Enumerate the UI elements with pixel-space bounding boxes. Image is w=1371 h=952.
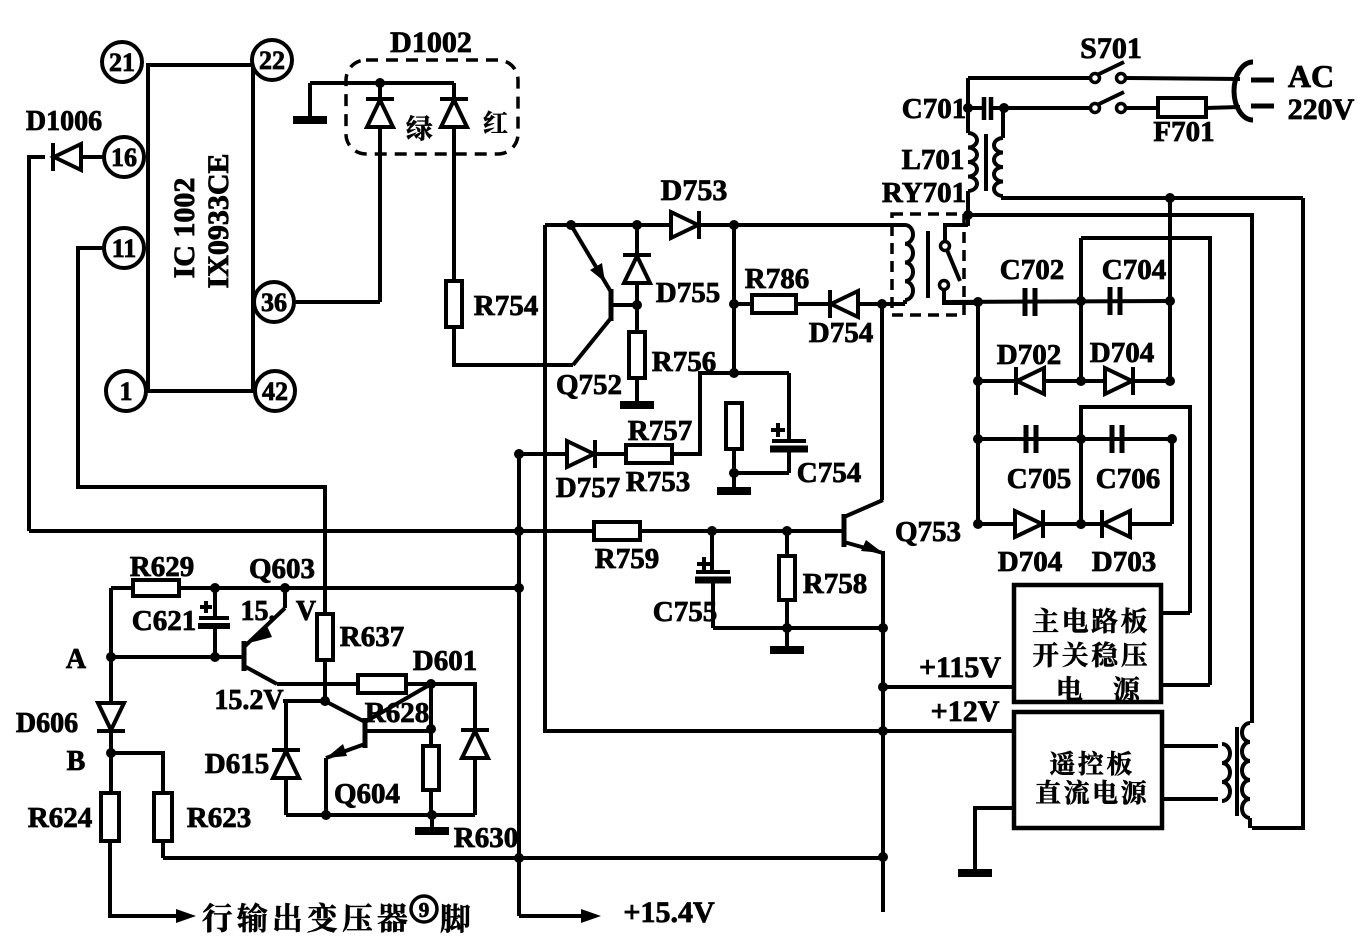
- wire AC second line: [992, 106, 1091, 110]
- junction R630 bottom: [427, 810, 437, 820]
- switch S701 blade b: [1097, 92, 1124, 105]
- junction x883 y856: [878, 852, 888, 862]
- svg-text:Q753: Q753: [895, 516, 961, 548]
- transformer T primary winding: [1242, 723, 1250, 818]
- relay blade: [947, 250, 960, 281]
- wire L701 right bottom: [1003, 196, 1303, 198]
- block remote control DC supply: [1014, 712, 1162, 828]
- svg-text:Q603: Q603: [249, 553, 315, 585]
- wire +15.4V vertical x519: [517, 454, 521, 916]
- wire bottom rail C755-R758-Q753: [713, 626, 883, 630]
- fuse F701: [1158, 98, 1206, 117]
- diode D704 upper: [1105, 367, 1133, 395]
- svg-text:15.2V: 15.2V: [214, 685, 283, 716]
- wire right column x1303: [1252, 198, 1303, 828]
- pin 22: [252, 40, 292, 80]
- svg-text:IC 1002: IC 1002: [168, 178, 201, 279]
- svg-text:220V: 220V: [1288, 93, 1355, 126]
- resistor R630 body: [423, 746, 439, 790]
- wire top line to plug: [1126, 78, 1240, 79]
- wire R623 down to long rail: [161, 841, 165, 858]
- svg-text:D757: D757: [556, 472, 620, 504]
- junction x519 y531: [514, 526, 524, 536]
- pin 11: [104, 228, 144, 268]
- IC U1002 box: [148, 65, 253, 391]
- svg-text:IX0933CE: IX0933CE: [202, 153, 235, 288]
- capacitor C702: [1025, 288, 1035, 316]
- wire pin11 left-down-right to R637: [78, 248, 325, 614]
- junction row C left: [973, 434, 983, 444]
- wire left column x978: [976, 302, 980, 524]
- capacitor C621: [198, 588, 230, 657]
- diode D757: [567, 440, 595, 468]
- junction Q604 emitter bottom: [321, 810, 331, 820]
- ground at D1002: [293, 116, 327, 124]
- junction y198: [1165, 193, 1175, 203]
- wire D754 to relay coil: [858, 302, 905, 306]
- junction R758 bottom: [782, 623, 792, 633]
- svg-text:R623: R623: [187, 802, 251, 834]
- wire R628 to D601 corner: [407, 684, 475, 729]
- switch S701 contact b1: [1091, 104, 1100, 113]
- svg-text:D703: D703: [1092, 546, 1156, 578]
- wire box2 ground stub: [975, 808, 1014, 871]
- wire R786 branch vertical x734: [732, 225, 736, 373]
- wire to fuse: [1126, 106, 1158, 110]
- resistor R786 body: [752, 295, 796, 313]
- svg-text:C755: C755: [653, 596, 717, 628]
- wire R758 bottom stub: [785, 600, 789, 628]
- svg-text:R624: R624: [28, 802, 92, 834]
- capacitor C701: [968, 97, 991, 120]
- svg-text:V: V: [296, 596, 316, 627]
- LED red vertical wire: [452, 83, 456, 283]
- label flyback transformer pin 9: [203, 896, 470, 933]
- resistor R629 body: [133, 580, 179, 596]
- wire R756 to ground: [635, 378, 639, 404]
- junction D755 cathode: [632, 220, 642, 230]
- wire to D757: [519, 452, 567, 456]
- capacitor C706: [1112, 425, 1122, 453]
- svg-text:C706: C706: [1096, 463, 1160, 495]
- svg-text:+15.4V: +15.4V: [623, 896, 715, 929]
- diode D702: [1016, 367, 1044, 395]
- wire top bus into relay coil: [892, 223, 905, 227]
- switch S701 contact b2: [1117, 104, 1126, 113]
- svg-text:C702: C702: [1000, 254, 1064, 286]
- svg-text:D755: D755: [656, 277, 720, 309]
- wire pin36 to green LED: [294, 300, 380, 304]
- junction R630 top node: [426, 724, 436, 734]
- junction 15.2V node: [320, 696, 330, 706]
- wire L701 left bottom to relay node: [966, 191, 970, 226]
- transistor Q753: [844, 500, 883, 553]
- svg-text:D606: D606: [16, 708, 78, 739]
- wire Q753 emitter down x883: [881, 551, 885, 912]
- junction node B: [106, 748, 116, 758]
- wire box1 upper stub: [1161, 611, 1190, 615]
- transistor Q604: [325, 684, 431, 815]
- wire D615 anode: [284, 776, 288, 815]
- junction x883 y731: [878, 726, 888, 736]
- junction unnamed resistor top: [729, 368, 739, 378]
- resistor R756 body: [629, 332, 645, 378]
- svg-text:42: 42: [262, 377, 288, 406]
- svg-text:Q604: Q604: [334, 778, 400, 810]
- svg-text:+115V: +115V: [919, 651, 1001, 684]
- wire R758 top stub: [785, 531, 789, 557]
- wire R754 bottom to Q752 collector: [454, 327, 573, 365]
- label green: [407, 115, 433, 140]
- wire R624 down to flyback arrow: [110, 841, 176, 916]
- wire R629 row: [111, 586, 519, 590]
- wire L701 right top: [1001, 108, 1005, 138]
- wire D754 node down to Q753 collector: [880, 304, 884, 500]
- junction C621 bottom: [210, 652, 220, 662]
- svg-text:C701: C701: [902, 93, 966, 125]
- plug prong 2: [1251, 104, 1274, 109]
- junction row B mid: [1076, 376, 1086, 386]
- wire pin16 to D1006: [81, 155, 104, 159]
- wire collector row to R628: [277, 682, 358, 686]
- wire D1002 top bus: [310, 81, 454, 85]
- LED green (part of D1002): [366, 99, 394, 127]
- transformer T secondary winding: [1222, 744, 1230, 801]
- wire +12V riser x545: [545, 225, 1014, 731]
- transformer core: [1235, 727, 1239, 816]
- wire ground stub: [785, 628, 789, 648]
- wire D1006 left down to +15.4V rail: [29, 157, 45, 531]
- wire R786 to D754: [796, 302, 832, 306]
- svg-text:D704: D704: [998, 546, 1062, 578]
- svg-text:11: 11: [112, 234, 137, 263]
- junction row A left: [973, 297, 983, 307]
- svg-text:C705: C705: [1007, 463, 1071, 495]
- resistor R624 body: [101, 793, 119, 841]
- junction C755 top: [707, 526, 717, 536]
- wire B to R624: [109, 753, 113, 793]
- wire box2 to transformer top: [1162, 744, 1218, 748]
- wire R630 bottom: [429, 790, 433, 815]
- AC plug symbol: [1234, 62, 1253, 120]
- junction Q752 emitter: [566, 220, 576, 230]
- junction x1081 row D: [1076, 519, 1086, 529]
- capacitor C705: [1026, 425, 1036, 453]
- diode D753: [671, 211, 699, 239]
- block main board switching supply: [1014, 585, 1161, 702]
- junction green LED top: [375, 78, 385, 88]
- wire D606 to B: [109, 733, 113, 753]
- junction relay top node: [963, 210, 973, 220]
- wire AC top line: [968, 76, 1091, 80]
- junction R758 top: [782, 526, 792, 536]
- junction row D mid: [1076, 519, 1086, 529]
- wire +115V: [883, 685, 1014, 689]
- svg-text:L701: L701: [902, 144, 965, 176]
- svg-text:C704: C704: [1102, 254, 1166, 286]
- arrowhead +15.4V: [581, 909, 601, 923]
- junction row A mid: [1076, 296, 1086, 306]
- relay contact top: [941, 242, 950, 251]
- diode D755: [623, 255, 651, 283]
- wire to ground: [308, 83, 312, 118]
- wire R637 lower stub: [323, 659, 327, 701]
- junction row D left: [973, 519, 983, 529]
- pin 21: [102, 42, 142, 82]
- svg-text:D704: D704: [1090, 337, 1154, 369]
- svg-text:B: B: [67, 746, 86, 777]
- relay contact bottom: [940, 281, 949, 290]
- relay switch top lead: [945, 225, 968, 242]
- junction Q752 base node: [632, 300, 642, 310]
- svg-text:R629: R629: [130, 551, 194, 583]
- ground below resistor: [717, 487, 751, 495]
- svg-text:D702: D702: [997, 339, 1061, 371]
- resistor R628 body: [358, 675, 406, 693]
- resistor R759 body: [594, 522, 640, 540]
- resistor R637 body: [317, 614, 333, 660]
- inductor L701 right winding: [994, 138, 1003, 196]
- svg-text:D601: D601: [413, 645, 477, 677]
- pin 36: [254, 282, 294, 322]
- junction +15.4V tap to D757: [514, 449, 524, 459]
- junction R786 row: [729, 299, 739, 309]
- wire R753 up to C754 node: [672, 373, 789, 454]
- wire D615 cathode stub: [284, 701, 288, 749]
- wire 15.2V stub: [283, 699, 325, 703]
- junction x519 y588: [514, 583, 524, 593]
- svg-text:A: A: [66, 644, 87, 675]
- junction row B left: [973, 376, 983, 386]
- svg-text:R637: R637: [340, 621, 404, 653]
- svg-text:D753: D753: [661, 174, 728, 207]
- switch S701 contact a2: [1117, 74, 1126, 83]
- svg-text:R758: R758: [803, 568, 867, 600]
- diode D703: [1102, 510, 1130, 538]
- resistor R758 body: [779, 556, 795, 600]
- wire y215 to right column: [968, 215, 1252, 723]
- junction C701 left: [963, 103, 973, 113]
- resistor R754 body: [446, 281, 462, 327]
- junction x883 y687: [878, 682, 888, 692]
- svg-text:22: 22: [259, 46, 285, 75]
- junction row B right: [1165, 376, 1175, 386]
- wire D601 anode down: [473, 757, 477, 815]
- capacitor C754: [770, 373, 808, 473]
- junction Q604 collector node: [426, 679, 436, 689]
- wire ground stub: [430, 815, 434, 829]
- wire +15.4V arrow stub: [519, 914, 583, 918]
- ground below R756: [620, 401, 654, 409]
- resistor R753 body: [626, 445, 672, 463]
- wire box1 lower stub: [1161, 683, 1210, 687]
- pin 16: [104, 137, 144, 177]
- junction node A: [106, 652, 116, 662]
- svg-text:D1002: D1002: [390, 26, 472, 59]
- label red: [484, 111, 507, 133]
- wire C754 to lower node: [734, 471, 789, 475]
- junction D754 node: [877, 299, 887, 309]
- wire primary bottom: [1248, 818, 1252, 828]
- wire lower rail y407: [1081, 407, 1190, 613]
- svg-text:+12V: +12V: [931, 695, 1000, 728]
- transistor Q752: [571, 225, 637, 365]
- svg-text:D1006: D1006: [26, 106, 102, 137]
- junction L701 right top: [999, 103, 1009, 113]
- switch S701 contact a1: [1091, 74, 1100, 83]
- wire coil bottom: [903, 300, 907, 304]
- inductor L701 left winding: [968, 133, 977, 191]
- capacitor C755: [695, 531, 731, 628]
- ground below R758: [770, 646, 804, 654]
- junction R786 branch: [729, 220, 739, 230]
- wire right column lower: [1170, 439, 1174, 524]
- svg-text:C621: C621: [132, 605, 196, 637]
- svg-text:16: 16: [111, 143, 137, 172]
- junction x519 y858: [514, 853, 524, 863]
- wire row B: [978, 379, 1170, 383]
- svg-text:R759: R759: [595, 543, 659, 575]
- junction row A right: [1165, 296, 1175, 306]
- wire base rail y531 right: [640, 529, 844, 533]
- svg-text:D615: D615: [205, 748, 269, 780]
- wire right column upper x1170: [1168, 198, 1172, 382]
- inductor L701 core: [984, 134, 988, 191]
- wire A row: [111, 655, 244, 659]
- diode D601: [461, 730, 489, 758]
- wire bottom long rail: [163, 856, 883, 860]
- junction C621 top: [210, 583, 220, 593]
- LED red (part of D1002): [440, 99, 468, 127]
- wire x968 down to L701: [966, 78, 970, 133]
- diode D615: [272, 750, 300, 778]
- wire B to R623: [111, 753, 163, 793]
- svg-text:15.: 15.: [241, 596, 276, 627]
- transistor Q603: [244, 588, 285, 684]
- svg-text:F701: F701: [1153, 116, 1214, 148]
- svg-text:R786: R786: [745, 263, 809, 295]
- wire corner to A: [109, 588, 113, 657]
- junction lower node: [729, 468, 739, 478]
- svg-text:R754: R754: [474, 290, 538, 322]
- svg-text:R757: R757: [628, 415, 692, 447]
- relay core bar: [926, 231, 930, 298]
- wire D755 anode to base node: [635, 281, 639, 333]
- wire to R786: [734, 302, 752, 306]
- ground below box2: [958, 869, 992, 877]
- svg-text:D754: D754: [809, 317, 873, 349]
- wire row D: [978, 522, 1172, 526]
- plug prong 1: [1251, 78, 1274, 83]
- diode D704 lower: [1015, 510, 1043, 538]
- junction Q603 emitter top: [280, 583, 290, 593]
- wire main top bus y225: [545, 223, 892, 227]
- wire row A: [944, 301, 1170, 302]
- capacitor C704: [1110, 287, 1120, 315]
- svg-text:R753: R753: [626, 466, 690, 498]
- wire resistor to lower node: [732, 449, 736, 489]
- resistor below C754 node: [726, 403, 742, 449]
- wire D755 cathode: [635, 225, 639, 254]
- svg-text:C754: C754: [797, 457, 861, 489]
- svg-text:Q752: Q752: [556, 369, 622, 401]
- relay RY701 coil: [905, 225, 913, 300]
- wire bottom rail Q604: [286, 813, 475, 817]
- relay switch bottom lead: [944, 289, 978, 303]
- ground below R630: [415, 827, 449, 835]
- pin 1: [106, 371, 146, 411]
- wire base rail y531 left: [29, 529, 594, 533]
- switch S701 blade a: [1097, 62, 1124, 75]
- svg-text:36: 36: [261, 288, 287, 317]
- LED green vertical wire: [378, 83, 382, 302]
- pin 42: [255, 371, 295, 411]
- svg-text:S701: S701: [1080, 32, 1142, 65]
- relay RY701 dashed box: [892, 214, 964, 315]
- svg-text:R630: R630: [454, 822, 518, 854]
- wire mid column upper: [1079, 238, 1083, 381]
- wire box2 to transformer bottom: [1162, 797, 1218, 801]
- diode D754: [830, 290, 858, 318]
- diode D606: [97, 703, 125, 731]
- svg-text:9: 9: [419, 898, 430, 922]
- wire R630 column: [429, 684, 433, 746]
- wire upper rail y238: [1081, 238, 1210, 685]
- LED assembly D1002 dashed box: [346, 60, 518, 154]
- svg-text:1: 1: [120, 377, 133, 406]
- junction row C right: [1167, 434, 1177, 444]
- svg-text:RY701: RY701: [882, 177, 966, 209]
- svg-text:21: 21: [109, 48, 135, 77]
- diode D1006: [53, 143, 81, 171]
- junction node A col down: [109, 657, 113, 704]
- junction x1081 row C: [1076, 434, 1086, 444]
- resistor R623 body: [154, 793, 172, 841]
- svg-text:AC: AC: [1288, 58, 1334, 94]
- wire D757 to R753: [595, 452, 626, 456]
- junction x883 y628: [878, 623, 888, 633]
- wire row C: [978, 437, 1172, 441]
- arrowhead flyback: [176, 909, 196, 923]
- wire fuse to plug: [1206, 107, 1240, 108]
